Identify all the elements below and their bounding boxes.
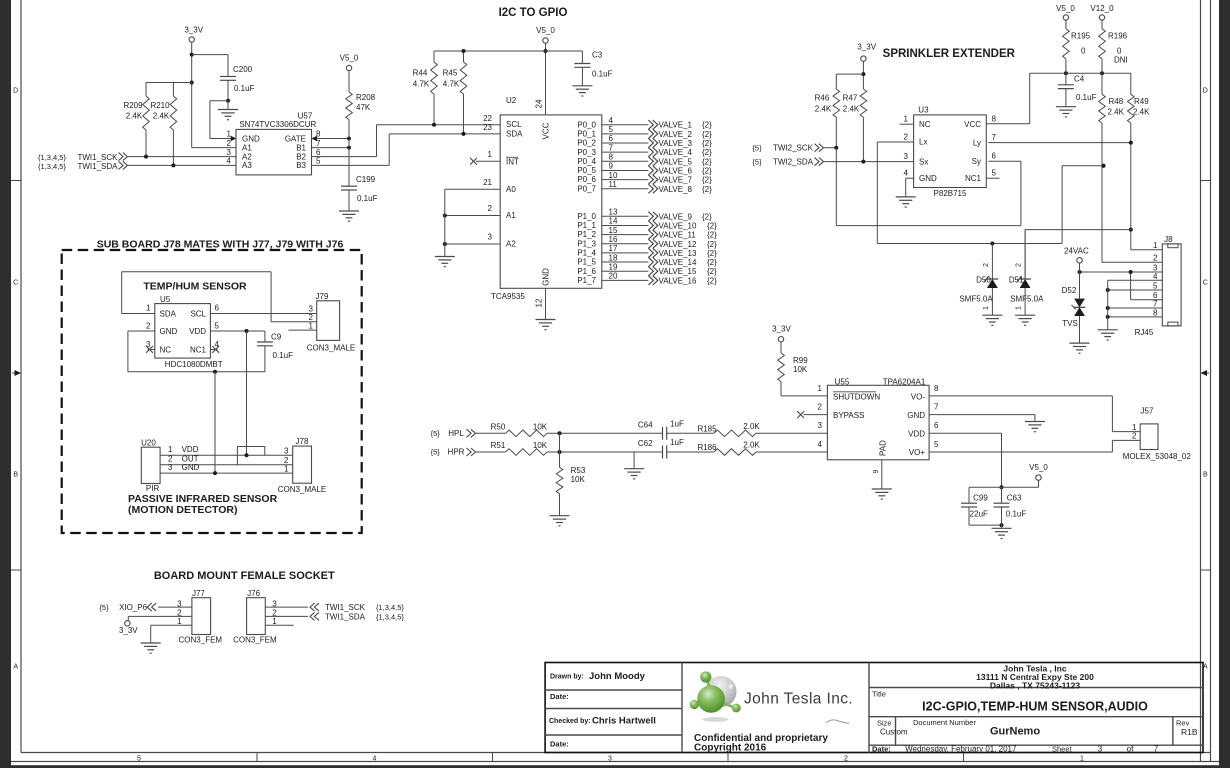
svg-text:TWI1_SDA: TWI1_SDA <box>77 162 118 171</box>
svg-text:GurNemo: GurNemo <box>990 726 1040 738</box>
svg-text:TWI1_SCK: TWI1_SCK <box>77 153 118 162</box>
svg-text:P1_6: P1_6 <box>577 267 596 276</box>
svg-text:P0_3: P0_3 <box>577 148 596 157</box>
svg-text:16: 16 <box>609 235 618 244</box>
svg-text:NC: NC <box>160 345 172 354</box>
svg-text:C200: C200 <box>233 65 253 74</box>
svg-text:R45: R45 <box>443 69 458 78</box>
svg-text:of: of <box>1127 744 1134 753</box>
svg-text:2.4K: 2.4K <box>815 105 832 114</box>
svg-text:C9: C9 <box>271 333 282 342</box>
svg-text:{2}: {2} <box>702 139 712 148</box>
svg-text:R51: R51 <box>491 441 506 450</box>
svg-text:{5}: {5} <box>99 603 109 612</box>
svg-text:14: 14 <box>609 217 618 226</box>
svg-text:0.1uF: 0.1uF <box>1076 93 1097 102</box>
svg-text:R50: R50 <box>491 423 506 432</box>
svg-text:2.0K: 2.0K <box>743 422 760 431</box>
svg-text:B1: B1 <box>296 143 306 152</box>
svg-text:R209: R209 <box>123 101 143 110</box>
svg-text:D: D <box>13 88 18 95</box>
svg-text:6: 6 <box>934 421 939 430</box>
svg-text:R49: R49 <box>1134 97 1149 106</box>
svg-text:10K: 10K <box>533 423 548 432</box>
svg-text:A2: A2 <box>506 240 516 249</box>
svg-text:2: 2 <box>227 139 232 148</box>
svg-text:VALVE_3: VALVE_3 <box>659 139 693 148</box>
svg-text:0.1uF: 0.1uF <box>273 351 294 360</box>
svg-text:CON3_FEM: CON3_FEM <box>179 636 223 645</box>
svg-text:NC1: NC1 <box>965 174 982 183</box>
svg-text:VCC: VCC <box>964 120 981 129</box>
svg-text:Custom: Custom <box>880 728 908 737</box>
svg-text:VALVE_2: VALVE_2 <box>659 130 693 139</box>
svg-text:22uF: 22uF <box>970 510 988 519</box>
svg-text:1: 1 <box>272 617 277 626</box>
svg-text:VO+: VO+ <box>909 448 926 457</box>
svg-text:3: 3 <box>818 421 823 430</box>
svg-text:B3: B3 <box>296 161 306 170</box>
svg-text:9: 9 <box>873 469 880 473</box>
svg-text:A1: A1 <box>506 211 516 220</box>
svg-text:Copyright 2016: Copyright 2016 <box>694 743 767 754</box>
svg-text:VALVE_1: VALVE_1 <box>659 121 693 130</box>
svg-text:3: 3 <box>1098 744 1103 753</box>
svg-text:5: 5 <box>992 169 997 178</box>
svg-text:C63: C63 <box>1007 493 1022 502</box>
svg-text:J8: J8 <box>1164 235 1173 244</box>
svg-text:A1: A1 <box>242 143 252 152</box>
svg-text:P1_2: P1_2 <box>577 230 596 239</box>
svg-text:John Moody: John Moody <box>589 671 646 682</box>
svg-text:R48: R48 <box>1109 97 1124 106</box>
svg-text:U55: U55 <box>835 377 850 386</box>
svg-text:R210: R210 <box>150 101 170 110</box>
svg-text:24: 24 <box>535 99 544 108</box>
svg-text:B: B <box>13 472 18 479</box>
svg-text:{5}: {5} <box>431 448 441 457</box>
svg-text:R47: R47 <box>843 94 858 103</box>
svg-text:10K: 10K <box>571 475 586 484</box>
svg-text:5: 5 <box>934 440 939 449</box>
svg-text:R195: R195 <box>1071 32 1091 41</box>
svg-text:{1,3,4,5}: {1,3,4,5} <box>376 603 404 612</box>
svg-text:B: B <box>1203 472 1208 479</box>
svg-text:PAD: PAD <box>879 440 888 456</box>
svg-text:I2C-GPIO,TEMP-HUM SENSOR,AUDIO: I2C-GPIO,TEMP-HUM SENSOR,AUDIO <box>922 700 1148 714</box>
svg-text:J57: J57 <box>1141 407 1154 416</box>
svg-text:XIO_P6: XIO_P6 <box>119 603 148 612</box>
svg-text:3_3V: 3_3V <box>857 43 876 52</box>
svg-text:NC: NC <box>919 120 931 129</box>
svg-text:SPRINKLER EXTENDER: SPRINKLER EXTENDER <box>883 48 1016 60</box>
svg-text:0.1uF: 0.1uF <box>592 70 613 79</box>
svg-text:22: 22 <box>483 114 492 123</box>
svg-text:P1_3: P1_3 <box>577 239 596 248</box>
svg-text:VCC: VCC <box>542 122 551 139</box>
svg-text:1: 1 <box>227 130 232 139</box>
svg-text:B2: B2 <box>296 152 306 161</box>
svg-text:{2}: {2} <box>707 231 717 240</box>
svg-text:SUB BOARD J78 MATES WITH J77,: SUB BOARD J78 MATES WITH J77, J79 WITH J… <box>97 238 344 250</box>
svg-text:0.1uF: 0.1uF <box>357 194 378 203</box>
svg-text:Sy: Sy <box>972 157 981 166</box>
svg-text:2.4K: 2.4K <box>126 112 143 121</box>
svg-text:GND: GND <box>242 134 260 143</box>
svg-text:P0_4: P0_4 <box>577 157 596 166</box>
svg-text:VALVE_4: VALVE_4 <box>659 148 693 157</box>
svg-text:{5}: {5} <box>431 429 441 438</box>
svg-text:{2}: {2} <box>707 258 717 267</box>
svg-text:HPR: HPR <box>448 448 465 457</box>
svg-text:6: 6 <box>992 152 997 161</box>
svg-text:15: 15 <box>609 226 618 235</box>
svg-text:3: 3 <box>177 599 182 608</box>
svg-text:RJ45: RJ45 <box>1135 328 1154 337</box>
svg-text:7: 7 <box>609 143 614 152</box>
svg-text:R196: R196 <box>1108 32 1128 41</box>
svg-text:1: 1 <box>177 617 182 626</box>
svg-text:47K: 47K <box>356 103 371 112</box>
svg-text:U3: U3 <box>918 106 929 115</box>
svg-text:SN74TVC3306DCUR: SN74TVC3306DCUR <box>239 120 316 129</box>
svg-text:{2}: {2} <box>707 276 717 285</box>
svg-text:4: 4 <box>904 169 909 178</box>
svg-text:Date:: Date: <box>550 692 569 701</box>
svg-text:{2}: {2} <box>707 221 717 230</box>
svg-text:{2}: {2} <box>707 249 717 258</box>
svg-text:C199: C199 <box>356 175 376 184</box>
svg-text:23: 23 <box>483 123 492 132</box>
svg-text:R46: R46 <box>815 94 830 103</box>
svg-text:SCL: SCL <box>190 309 206 318</box>
svg-text:BYPASS: BYPASS <box>833 411 864 420</box>
svg-text:1: 1 <box>983 306 990 310</box>
svg-text:VALVE_7: VALVE_7 <box>659 176 693 185</box>
svg-text:{1,3,4,5}: {1,3,4,5} <box>38 153 66 162</box>
svg-text:9: 9 <box>609 162 614 171</box>
svg-text:V12_0: V12_0 <box>1090 4 1114 13</box>
svg-text:1: 1 <box>284 464 289 473</box>
svg-text:8: 8 <box>934 384 939 393</box>
svg-text:U20: U20 <box>141 438 156 447</box>
svg-text:VDD: VDD <box>182 445 199 454</box>
svg-text:2: 2 <box>904 133 909 142</box>
svg-text:3: 3 <box>146 340 151 349</box>
svg-text:2: 2 <box>1132 432 1137 441</box>
svg-text:HDC1080DMBT: HDC1080DMBT <box>165 360 223 369</box>
svg-text:GND: GND <box>919 174 937 183</box>
svg-text:R1B: R1B <box>1181 727 1198 737</box>
svg-text:VALVE_5: VALVE_5 <box>659 157 693 166</box>
svg-text:R44: R44 <box>413 69 428 78</box>
svg-text:20: 20 <box>609 272 618 281</box>
svg-text:{1,3,4,5}: {1,3,4,5} <box>376 612 404 621</box>
svg-text:U5: U5 <box>160 295 171 304</box>
svg-text:V5_0: V5_0 <box>1029 463 1048 472</box>
svg-text:C: C <box>1203 280 1208 287</box>
svg-text:8: 8 <box>609 153 614 162</box>
svg-text:CON3_MALE: CON3_MALE <box>278 485 326 494</box>
svg-text:BOARD MOUNT FEMALE SOCKET: BOARD MOUNT FEMALE SOCKET <box>154 570 335 582</box>
svg-text:P0_1: P0_1 <box>577 129 596 138</box>
svg-text:3: 3 <box>904 152 909 161</box>
svg-text:C4: C4 <box>1074 75 1085 84</box>
svg-text:21: 21 <box>483 178 492 187</box>
svg-text:GATE: GATE <box>285 134 306 143</box>
svg-text:SDA: SDA <box>506 129 523 138</box>
svg-text:8: 8 <box>1153 308 1158 317</box>
svg-text:5: 5 <box>316 157 321 166</box>
svg-text:VDD: VDD <box>189 327 206 336</box>
svg-text:1: 1 <box>488 150 493 159</box>
svg-text:1: 1 <box>309 321 314 330</box>
svg-text:4: 4 <box>609 116 614 125</box>
svg-text:3: 3 <box>168 463 173 472</box>
svg-text:Title: Title <box>872 690 886 699</box>
svg-text:VALVE_6: VALVE_6 <box>659 166 693 175</box>
svg-text:5: 5 <box>609 125 614 134</box>
svg-text:Dallas , TX 75243-1123: Dallas , TX 75243-1123 <box>990 681 1081 691</box>
svg-text:Checked by:: Checked by: <box>549 718 591 725</box>
svg-text:P1_5: P1_5 <box>577 258 596 267</box>
svg-text:Ly: Ly <box>973 138 981 147</box>
svg-text:GND: GND <box>160 327 178 336</box>
svg-text:TWI1_SCK: TWI1_SCK <box>325 603 366 612</box>
svg-text:J78: J78 <box>296 437 309 446</box>
svg-text:C64: C64 <box>638 421 653 430</box>
svg-text:3: 3 <box>488 233 493 242</box>
svg-text:SHUTDOWN: SHUTDOWN <box>833 392 880 401</box>
svg-text:D50: D50 <box>976 276 991 285</box>
svg-text:VALVE_12: VALVE_12 <box>659 240 698 249</box>
svg-text:D51: D51 <box>1009 276 1024 285</box>
svg-text:TWI2_SCK: TWI2_SCK <box>773 144 814 153</box>
svg-text:SMF5.0A: SMF5.0A <box>1010 295 1044 304</box>
svg-text:1: 1 <box>168 445 173 454</box>
svg-text:NC1: NC1 <box>190 345 207 354</box>
svg-text:Wednesday, February 01, 2017: Wednesday, February 01, 2017 <box>905 744 1017 753</box>
svg-text:6: 6 <box>609 134 614 143</box>
svg-text:TWI2_SDA: TWI2_SDA <box>773 158 814 167</box>
svg-text:A2: A2 <box>242 152 252 161</box>
svg-text:P1_7: P1_7 <box>577 276 596 285</box>
svg-text:C62: C62 <box>638 439 653 448</box>
svg-text:4.7K: 4.7K <box>413 80 430 89</box>
svg-text:4: 4 <box>227 157 232 166</box>
svg-text:VALVE_15: VALVE_15 <box>659 267 698 276</box>
svg-text:VALVE_14: VALVE_14 <box>659 258 698 267</box>
svg-text:3: 3 <box>284 446 289 455</box>
svg-text:CON3_MALE: CON3_MALE <box>307 344 355 353</box>
svg-text:DNI: DNI <box>1114 56 1128 65</box>
svg-text:VALVE_9: VALVE_9 <box>659 212 693 221</box>
svg-text:6: 6 <box>316 148 321 157</box>
svg-text:SCL: SCL <box>506 120 522 129</box>
svg-text:R53: R53 <box>571 466 586 475</box>
svg-text:GND: GND <box>182 463 200 472</box>
svg-text:U2: U2 <box>506 96 517 105</box>
svg-text:SDA: SDA <box>160 309 177 318</box>
svg-text:John Tesla Inc.: John Tesla Inc. <box>744 691 853 708</box>
svg-text:5: 5 <box>137 755 141 762</box>
svg-text:2.4K: 2.4K <box>1133 108 1150 117</box>
svg-text:1: 1 <box>904 115 909 124</box>
svg-text:{2}: {2} <box>702 212 712 221</box>
svg-text:{2}: {2} <box>702 148 712 157</box>
svg-text:4: 4 <box>373 755 377 762</box>
svg-text:VALVE_11: VALVE_11 <box>659 231 697 240</box>
svg-text:3_3V: 3_3V <box>772 325 791 334</box>
svg-text:(MOTION DETECTOR): (MOTION DETECTOR) <box>128 504 237 516</box>
svg-text:Date:: Date: <box>550 740 569 749</box>
svg-text:2: 2 <box>1016 263 1023 267</box>
svg-text:Lx: Lx <box>919 138 927 147</box>
svg-text:VDD: VDD <box>908 429 925 438</box>
svg-text:TPA6204A1: TPA6204A1 <box>883 377 926 386</box>
svg-text:P1_4: P1_4 <box>577 249 596 258</box>
svg-text:1uF: 1uF <box>670 420 684 429</box>
svg-text:2.4K: 2.4K <box>153 112 170 121</box>
svg-text:0: 0 <box>1117 47 1122 56</box>
svg-text:10K: 10K <box>793 365 808 374</box>
svg-text:0: 0 <box>1081 47 1086 56</box>
svg-text:1: 1 <box>1080 755 1084 762</box>
svg-text:VO-: VO- <box>911 392 926 401</box>
svg-text:{2}: {2} <box>707 267 717 276</box>
svg-text:D: D <box>1203 88 1208 95</box>
svg-text:P0_6: P0_6 <box>577 175 596 184</box>
svg-text:19: 19 <box>609 262 618 271</box>
svg-text:Size: Size <box>877 719 892 728</box>
svg-text:{2}: {2} <box>702 130 712 139</box>
svg-text:1: 1 <box>1132 423 1137 432</box>
svg-text:18: 18 <box>609 253 618 262</box>
svg-text:2: 2 <box>1153 254 1158 263</box>
svg-text:Chris Hartwell: Chris Hartwell <box>592 716 656 727</box>
svg-text:Date:: Date: <box>872 744 891 753</box>
svg-text:A0: A0 <box>506 185 516 194</box>
svg-text:2.4K: 2.4K <box>1108 108 1125 117</box>
svg-text:1: 1 <box>1153 241 1158 250</box>
svg-text:J79: J79 <box>316 292 329 301</box>
svg-text:A3: A3 <box>242 161 252 170</box>
svg-text:13: 13 <box>609 208 618 217</box>
svg-text:PIR: PIR <box>146 484 160 493</box>
svg-text:MOLEX_53048_02: MOLEX_53048_02 <box>1123 452 1192 461</box>
svg-text:1: 1 <box>818 384 823 393</box>
svg-text:Sx: Sx <box>919 157 928 166</box>
svg-text:VALVE_13: VALVE_13 <box>659 249 698 258</box>
svg-text:R208: R208 <box>356 93 376 102</box>
svg-text:HPL: HPL <box>448 429 464 438</box>
svg-text:D52: D52 <box>1062 286 1077 295</box>
svg-text:7: 7 <box>934 403 939 412</box>
svg-text:V5_0: V5_0 <box>536 26 555 35</box>
svg-text:P0_0: P0_0 <box>577 120 596 129</box>
svg-text:8: 8 <box>992 115 997 124</box>
svg-text:12: 12 <box>535 298 544 307</box>
svg-text:2: 2 <box>818 403 823 412</box>
svg-text:{2}: {2} <box>702 121 712 130</box>
svg-text:10: 10 <box>609 171 618 180</box>
svg-text:P0_2: P0_2 <box>577 139 596 148</box>
svg-text:1: 1 <box>1016 306 1023 310</box>
svg-text:VALVE_8: VALVE_8 <box>659 185 693 194</box>
svg-text:P0_7: P0_7 <box>577 184 596 193</box>
svg-text:4: 4 <box>1153 272 1158 281</box>
svg-text:2.0K: 2.0K <box>743 441 760 450</box>
svg-text:TCA9535: TCA9535 <box>491 292 525 301</box>
svg-text:V5_0: V5_0 <box>1056 4 1075 13</box>
svg-text:R99: R99 <box>793 356 808 365</box>
svg-text:{2}: {2} <box>702 157 712 166</box>
svg-text:3_3V: 3_3V <box>184 26 203 35</box>
svg-text:P1_1: P1_1 <box>577 221 596 230</box>
svg-text:CON3_FEM: CON3_FEM <box>233 636 277 645</box>
svg-text:4.7K: 4.7K <box>443 80 460 89</box>
svg-text:3_3V: 3_3V <box>119 626 138 635</box>
svg-text:{2}: {2} <box>702 166 712 175</box>
svg-text:2.4K: 2.4K <box>843 105 860 114</box>
svg-text:J76: J76 <box>247 589 260 598</box>
svg-text:1uF: 1uF <box>670 438 684 447</box>
svg-text:{5}: {5} <box>752 144 762 153</box>
svg-text:{5}: {5} <box>752 158 762 167</box>
svg-text:11: 11 <box>609 180 618 189</box>
svg-text:VALVE_10: VALVE_10 <box>659 221 698 230</box>
svg-text:GND: GND <box>542 268 551 286</box>
svg-text:V5_0: V5_0 <box>340 54 359 63</box>
svg-text:C3: C3 <box>592 51 603 60</box>
svg-text:R186: R186 <box>697 443 717 452</box>
svg-text:R185: R185 <box>697 424 717 433</box>
svg-text:2: 2 <box>488 204 493 213</box>
svg-text:4: 4 <box>818 440 823 449</box>
svg-text:1: 1 <box>146 304 151 313</box>
svg-text:P82B715: P82B715 <box>934 189 967 198</box>
svg-text:7: 7 <box>1154 744 1159 753</box>
svg-text:U57: U57 <box>298 111 313 120</box>
svg-text:C99: C99 <box>973 493 988 502</box>
svg-text:SMF5.0A: SMF5.0A <box>959 295 993 304</box>
svg-text:2: 2 <box>146 321 151 330</box>
svg-text:P1_0: P1_0 <box>577 212 596 221</box>
svg-text:7: 7 <box>1153 300 1158 309</box>
svg-text:VALVE_16: VALVE_16 <box>659 276 698 285</box>
svg-text:TWI1_SDA: TWI1_SDA <box>325 612 366 621</box>
svg-text:0.1uF: 0.1uF <box>1006 510 1027 519</box>
svg-text:{1,3,4,5}: {1,3,4,5} <box>38 162 66 171</box>
svg-text:Document Number: Document Number <box>913 718 976 727</box>
svg-text:Drawn by:: Drawn by: <box>550 674 584 681</box>
svg-text:0.1uF: 0.1uF <box>234 84 255 93</box>
svg-text:2: 2 <box>983 263 990 267</box>
svg-text:{2}: {2} <box>707 240 717 249</box>
svg-text:{2}: {2} <box>702 185 712 194</box>
svg-text:Sheet: Sheet <box>1052 744 1073 753</box>
svg-text:C: C <box>13 280 18 287</box>
svg-text:6: 6 <box>215 304 220 313</box>
svg-text:GND: GND <box>907 411 925 420</box>
svg-text:P0_5: P0_5 <box>577 166 596 175</box>
svg-text:7: 7 <box>992 133 997 142</box>
svg-text:J77: J77 <box>192 589 205 598</box>
svg-text:{2}: {2} <box>702 176 712 185</box>
svg-text:2: 2 <box>844 755 848 762</box>
svg-text:24VAC: 24VAC <box>1064 246 1089 255</box>
svg-text:5: 5 <box>215 321 220 330</box>
